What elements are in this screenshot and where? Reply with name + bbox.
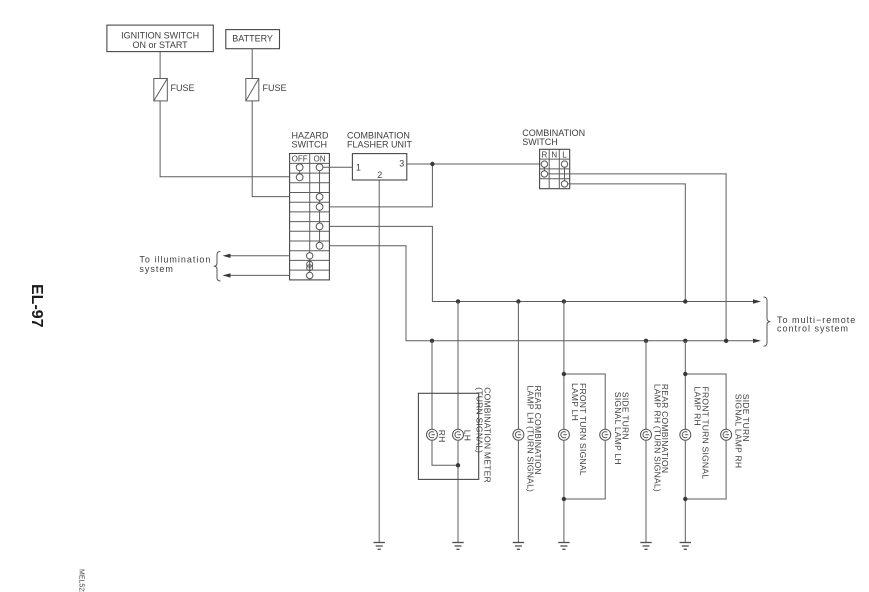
svg-text:BATTERY: BATTERY [232, 34, 273, 44]
svg-text:1: 1 [356, 163, 361, 173]
svg-text:ON or START: ON or START [133, 40, 189, 50]
svg-text:EL-97: EL-97 [28, 284, 45, 328]
svg-text:RH: RH [437, 430, 447, 443]
svg-text:FLASHER UNIT: FLASHER UNIT [347, 139, 413, 149]
svg-text:LAMP LH: LAMP LH [570, 383, 580, 421]
svg-text:ON: ON [314, 154, 326, 163]
svg-text:3: 3 [399, 158, 404, 168]
svg-text:MEL522B: MEL522B [78, 569, 85, 592]
svg-text:SIGNAL LAMP LH: SIGNAL LAMP LH [613, 392, 623, 465]
svg-text:LAMP RH: LAMP RH [693, 387, 703, 426]
svg-text:system: system [139, 264, 174, 274]
svg-text:SWITCH: SWITCH [522, 137, 558, 147]
svg-text:IGNITION SWITCH: IGNITION SWITCH [121, 30, 199, 40]
svg-text:FUSE: FUSE [171, 83, 195, 93]
svg-text:To illumination: To illumination [139, 254, 211, 264]
svg-text:N: N [551, 151, 557, 160]
svg-text:control system: control system [777, 324, 849, 334]
svg-text:LAMP RH (TURN SIGNAL): LAMP RH (TURN SIGNAL) [652, 384, 662, 492]
svg-text:SIGNAL LAMP RH: SIGNAL LAMP RH [733, 394, 743, 468]
svg-text:R: R [542, 151, 548, 160]
svg-text:LH: LH [462, 430, 472, 441]
svg-text:SWITCH: SWITCH [292, 139, 328, 149]
svg-text:(TURN SIGNAL): (TURN SIGNAL) [475, 387, 485, 453]
svg-text:FUSE: FUSE [263, 83, 287, 93]
svg-text:2: 2 [377, 170, 382, 180]
svg-text:L: L [562, 151, 567, 160]
svg-text:LAMP LH (TURN SIGNAL): LAMP LH (TURN SIGNAL) [525, 386, 535, 493]
svg-text:OFF: OFF [292, 154, 308, 163]
